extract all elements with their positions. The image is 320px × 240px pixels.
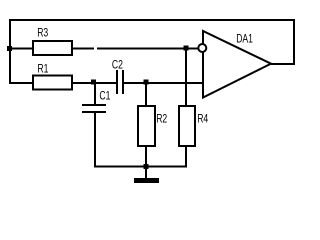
capacitor C2: [116, 70, 124, 94]
ground: [134, 167, 159, 183]
wire R2 bottom lead: [145, 146, 147, 167]
svg-text:R3: R3: [37, 28, 48, 41]
wire R2 top lead: [145, 83, 147, 106]
wire R1 right to C1 tap node: [72, 82, 94, 84]
wire C1 tap node to C2 left plate: [94, 82, 116, 84]
junction node A (left, R3/R1 tap): [7, 46, 12, 51]
svg-text:DA1: DA1: [236, 33, 253, 46]
wire R4 bottom lead: [185, 146, 187, 167]
wire bottom ground rail: [94, 166, 187, 168]
junction node E (ground rail / R2 bottom): [144, 164, 149, 169]
svg-text:R2: R2: [156, 113, 167, 126]
wire C1 bottom lead down to ground rail: [94, 113, 96, 167]
wire C2 right plate to non-inverting input: [124, 82, 203, 84]
wire C1 top lead: [94, 83, 96, 104]
wire inverting node to input bubble: [186, 48, 198, 50]
wire R3 right segment a (before gap): [72, 48, 94, 50]
capacitor C1: [82, 104, 106, 113]
op-amp DA1: [203, 31, 271, 98]
resistor R2: [138, 106, 155, 146]
svg-text:C1: C1: [99, 90, 110, 103]
wire right vertical from top wire down to output: [293, 19, 295, 65]
wire left vertical from top corner down to R1 row: [9, 19, 11, 84]
wire R3 right segment b (after gap) to inverting node: [97, 48, 186, 50]
wire R4 top lead from inverting node: [185, 49, 187, 106]
svg-text:C2: C2: [112, 59, 123, 72]
wire node A to R3 left: [9, 48, 32, 50]
inverting input bubble: [198, 44, 206, 52]
resistor R3: [33, 41, 72, 55]
svg-text:R4: R4: [197, 113, 208, 126]
resistor R4: [179, 106, 195, 146]
junction node B (inverting input / R4 tap): [184, 46, 189, 51]
svg-text:R1: R1: [37, 63, 48, 76]
wire top feedback from left vertical to right vertical: [9, 19, 295, 21]
wire left corner to R1 left: [9, 82, 32, 84]
wire op-amp output from apex to right vertical: [271, 63, 295, 65]
junction node D (R2 tap on C2 wire): [144, 80, 149, 85]
resistor R1: [33, 76, 72, 90]
junction node C (C1 tap on R1-C2 wire): [91, 80, 96, 85]
